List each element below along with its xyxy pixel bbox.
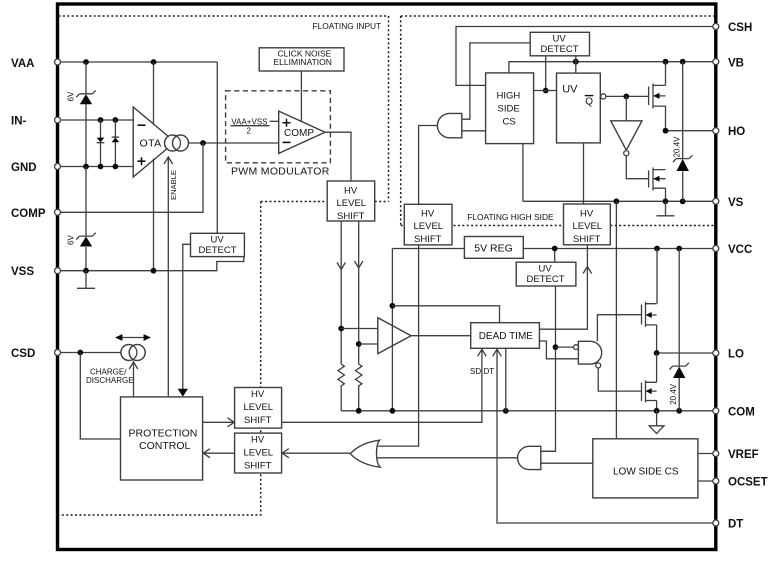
wire zener VCC-COM (678, 249, 680, 411)
wire UV detect top to AND (462, 43, 530, 119)
node VB/UV detect (573, 59, 579, 65)
svg-text:Q: Q (585, 96, 593, 107)
box DEAD TIME (471, 323, 540, 349)
svg-text:UV: UV (553, 34, 567, 45)
svg-text:6V: 6V (67, 91, 76, 101)
svg-text:HV: HV (251, 389, 265, 400)
pin circle VCC (713, 246, 719, 252)
box 5V REG (464, 237, 523, 259)
node ref branch (390, 303, 396, 309)
node HS CS to latch (543, 88, 549, 94)
svg-text:GND: GND (11, 162, 37, 174)
inverter high side (611, 121, 642, 156)
svg-text:CSH: CSH (728, 22, 752, 34)
node COM/M4 (654, 408, 660, 414)
pin circle CSH (713, 24, 719, 30)
svg-text:SHIFT: SHIFT (337, 211, 365, 222)
pin COM (728, 407, 755, 419)
wire inverter to lower gate (626, 156, 648, 179)
node COM/zener (676, 408, 682, 414)
svg-text:SD: SD (470, 367, 481, 376)
svg-text:20.4V: 20.4V (669, 383, 678, 405)
svg-text:HV: HV (421, 208, 435, 219)
svg-text:UV: UV (539, 264, 553, 275)
svg-text:PWM MODULATOR: PWM MODULATOR (231, 165, 330, 177)
svg-text:UV: UV (562, 84, 578, 96)
pin VS (728, 197, 744, 209)
floating high side dashed boundary (401, 16, 714, 226)
svg-text:SHIFT: SHIFT (573, 234, 601, 245)
svg-text:DETECT: DETECT (541, 44, 579, 55)
zener diode 6V upper (76, 90, 95, 104)
wire ENABLE (167, 158, 169, 397)
wire VS rail (523, 200, 716, 202)
wire HO rail (666, 130, 716, 132)
pin COMP (11, 208, 46, 220)
zener diode 6V lower (76, 233, 95, 247)
arrow into protection control (178, 389, 188, 397)
wire M1 source to HO (665, 106, 667, 131)
pin circle COMP (55, 209, 61, 215)
transistor M1 high side upper (649, 84, 666, 109)
arrow into HV shift right chevron (228, 418, 235, 427)
current source OTA output (165, 135, 189, 151)
node VCC/M3 (654, 246, 660, 252)
zener diode 20.4V high side (673, 155, 692, 171)
pin circle VAA (55, 59, 61, 65)
box HV LEVEL SHIFT left floating (404, 204, 452, 245)
wire HV left box output to OR input (378, 245, 419, 446)
pin DT (728, 518, 743, 530)
wire M3 source to LO (656, 325, 658, 353)
wire clamp diode line 2 (114, 120, 116, 167)
wire charge/discharge to protection control (133, 361, 135, 397)
arrow substrate below COM (649, 411, 664, 434)
transistor M2 high side lower (649, 168, 666, 191)
wire comparator input 2 (359, 343, 378, 345)
svg-text:UV: UV (211, 235, 225, 246)
wire UV detect to CS node (545, 56, 547, 91)
svg-text:CSD: CSD (11, 348, 35, 360)
pin OCSET (728, 476, 768, 488)
wire VAA rail (58, 61, 218, 63)
wire dead time out to HV level shift right (539, 245, 587, 329)
wire clamp diode line 1 (100, 120, 102, 167)
pin LO (728, 348, 744, 360)
pin circle COM (713, 408, 719, 414)
arrow chevron up to level shift (583, 267, 592, 274)
box HV LEVEL SHIFT right floating (564, 204, 611, 245)
wire VREF (698, 453, 716, 455)
wire AND input from low side CS (541, 462, 593, 464)
zener diode 20.4V low side (670, 363, 689, 378)
svg-text:LO: LO (728, 348, 744, 360)
wire COMP pin feedback (58, 143, 204, 212)
wire VCC rail (392, 248, 715, 250)
wire OTA output to COMP (189, 142, 279, 144)
wire OR output to HV shift (282, 452, 351, 454)
wire 5V reference drop (391, 249, 393, 411)
resistor pulldown 1 (338, 364, 344, 411)
wire to inverter (625, 96, 627, 120)
pin VB (728, 57, 744, 69)
svg-text:DETECT: DETECT (199, 245, 237, 256)
wire AND input from UV line (541, 450, 556, 452)
wire HS CS bottom to VS (522, 144, 524, 202)
node VSS/OTA supply (151, 268, 157, 274)
svg-text:FLOATING HIGH SIDE: FLOATING HIGH SIDE (467, 212, 554, 222)
wire dead time out to NAND (539, 341, 578, 359)
wire vref to comparator plus (270, 120, 279, 122)
floating input dashed boundary (59, 16, 389, 515)
svg-text:5V REG: 5V REG (474, 243, 513, 255)
svg-text:OCSET: OCSET (728, 476, 768, 488)
wire CSD to protection control (80, 353, 120, 440)
wire protection control to HV shift (203, 421, 235, 423)
arrow enable up chevron (164, 157, 173, 164)
svg-text:SHIFT: SHIFT (244, 460, 272, 471)
svg-text:HV: HV (344, 185, 358, 196)
node LO (654, 350, 660, 356)
svg-text:CHARGE/: CHARGE/ (90, 367, 127, 376)
svg-text:SHIFT: SHIFT (414, 234, 442, 245)
pin circle IN- (55, 117, 61, 123)
node VB/zener (680, 59, 686, 65)
node VCC/zener (676, 246, 682, 252)
pin circle DT (713, 520, 719, 526)
arrow down chevron 2 (355, 261, 363, 268)
svg-text:CS: CS (503, 116, 516, 127)
wire UV detect low output (541, 286, 556, 451)
svg-text:VREF: VREF (728, 449, 759, 461)
pin GND (11, 162, 37, 174)
svg-text:DETECT: DETECT (527, 274, 565, 285)
ground VS floating (657, 201, 675, 216)
box UV DETECT high side (530, 32, 589, 56)
svg-text:LEVEL: LEVEL (244, 402, 274, 413)
pin HO (728, 126, 745, 138)
node VS/low side link (614, 198, 620, 204)
svg-text:VS: VS (728, 197, 744, 209)
logic gate AND high side (437, 113, 461, 137)
wire level shift output 1 (340, 221, 342, 364)
node VS/zener (680, 198, 686, 204)
wire comparator output to HV level shift (325, 132, 351, 181)
pin CSH (728, 22, 752, 34)
wire UV detect to latch (575, 56, 577, 73)
svg-text:LEVEL: LEVEL (244, 447, 274, 458)
wire CSD rail (58, 352, 121, 354)
wire LO to M4 drain (656, 353, 658, 382)
node COM/ref (390, 408, 396, 414)
pin circle CSD (55, 350, 61, 356)
svg-text:HO: HO (728, 126, 745, 138)
pin circle HO (713, 128, 719, 134)
box UV DETECT left (191, 233, 245, 256)
op-amp OTA (133, 107, 175, 177)
svg-text:DEAD TIME: DEAD TIME (479, 331, 534, 342)
wire latch to HV shift right (583, 143, 585, 204)
wire HS CS to AND input (462, 130, 486, 132)
box UV DETECT low (516, 262, 576, 286)
svg-text:PROTECTION: PROTECTION (129, 427, 198, 439)
arrow DT chevron up (493, 349, 502, 356)
pin VCC (728, 244, 752, 256)
svg-text:DT: DT (484, 367, 495, 376)
svg-text:IN-: IN- (11, 115, 27, 127)
svg-text:LEVEL: LEVEL (414, 221, 444, 232)
node GND/diode2 (113, 164, 119, 170)
wire NAND top feed to upper gate (597, 315, 641, 342)
wire CSH rail (456, 27, 716, 86)
svg-text:COM: COM (728, 407, 755, 419)
svg-text:VCC: VCC (728, 244, 752, 256)
wire VAA to UV detect (216, 62, 218, 233)
node VAA/zener (83, 59, 89, 65)
wire ref to dead time top (392, 306, 499, 323)
latch UV with Q-bar (557, 73, 606, 143)
wire VCC to UV detect low (554, 249, 556, 263)
node VAA/OTA supply (151, 59, 157, 65)
svg-text:VAA+VSS: VAA+VSS (231, 117, 267, 126)
node GND/zener (83, 164, 89, 170)
wire buffer output to dead time (411, 335, 471, 337)
ground VSS (77, 271, 95, 289)
svg-text:LOW SIDE CS: LOW SIDE CS (613, 466, 679, 477)
PWM modulator dashed box (226, 91, 331, 163)
pin VAA (11, 58, 34, 70)
wire GND rail (58, 166, 134, 168)
svg-text:DISCHARGE: DISCHARGE (86, 376, 134, 385)
pin circle VREF (713, 451, 719, 457)
node VS/MOSFET (663, 198, 669, 204)
wire LO rail (657, 352, 716, 354)
arrow bidirectional charge/discharge (115, 334, 151, 341)
svg-text:VAA: VAA (11, 58, 34, 70)
svg-text:HV: HV (251, 434, 265, 445)
node comparator input 2 (356, 341, 362, 347)
logic gate OR fault (350, 440, 380, 467)
arrow down chevron 1 (337, 263, 345, 270)
pin VREF (728, 449, 759, 461)
svg-text:2: 2 (247, 127, 252, 136)
current source charge/discharge (121, 345, 145, 361)
svg-text:20.4V: 20.4V (673, 136, 682, 158)
box HV LEVEL SHIFT protection lower (235, 433, 282, 473)
wire VCC to M3 drain (656, 249, 658, 304)
wire VB rail (509, 62, 716, 73)
pin VSS (11, 266, 34, 278)
pin circle VS (713, 198, 719, 204)
wire comparator input 1 (341, 328, 378, 330)
wire IN- rail (58, 119, 134, 121)
wire HS CS to latch (534, 90, 557, 92)
box LOW SIDE CS (593, 439, 698, 498)
arrow into HV shift left chevron (282, 449, 289, 458)
svg-text:ENABLE: ENABLE (169, 170, 178, 200)
svg-text:CONTROL: CONTROL (139, 440, 190, 452)
pin circle GND (55, 164, 61, 170)
pin circle VSS (55, 268, 61, 274)
comparator PWM buffer (378, 318, 411, 354)
wire M2 to VS (665, 188, 667, 201)
svg-text:LEVEL: LEVEL (573, 221, 603, 232)
node NAND input branch (553, 344, 559, 350)
transistor M3 low side upper (642, 302, 657, 327)
node COM/deadtime (503, 408, 509, 414)
node CSD (77, 350, 83, 356)
node HO (663, 128, 669, 134)
diode clamp up (112, 137, 120, 142)
wire to NAND bubble input (556, 346, 574, 348)
wire zener VAA-GND (85, 62, 87, 167)
svg-text:FLOATING INPUT: FLOATING INPUT (313, 21, 382, 31)
arrow charge chevron up (129, 362, 138, 369)
pin circle OCSET (713, 478, 719, 484)
wire HV shift to protection control (203, 452, 235, 454)
svg-text:LEVEL: LEVEL (337, 198, 367, 209)
node VCC/UV tap (552, 246, 558, 252)
wire OCSET (698, 480, 716, 482)
box HIGH SIDE CS (486, 73, 534, 144)
node latch output branch (623, 94, 629, 100)
logic gate AND low fault (518, 446, 541, 469)
box CLICK NOISE ELLIMINATION (259, 48, 344, 71)
pin CSD (11, 348, 35, 360)
wire COM rail (341, 410, 716, 412)
svg-text:6V: 6V (67, 235, 76, 245)
node comparator input 1 (338, 326, 344, 332)
wire M4 source to COM (656, 401, 658, 411)
wire UV detect to protection control (183, 244, 191, 389)
node COM/resistor2 (356, 408, 362, 414)
wire OTA VSS supply (153, 159, 155, 271)
wire VSS rail (58, 257, 244, 271)
resistor pulldown 2 (356, 364, 362, 411)
wire latch output to gate (606, 95, 649, 97)
svg-text:SHIFT: SHIFT (244, 415, 272, 426)
node IN-/diode1 (98, 117, 104, 123)
node IN-/diode2 (113, 117, 119, 123)
svg-text:VSS: VSS (11, 266, 34, 278)
wire level shift output 2 (358, 221, 360, 364)
wire dead time to COM (505, 348, 507, 411)
box HV LEVEL SHIFT protection upper (235, 388, 282, 429)
box HV LEVEL SHIFT center (327, 181, 375, 222)
pin circle LO (713, 350, 719, 356)
svg-text:COMP: COMP (284, 128, 314, 139)
pin IN- (11, 115, 27, 127)
arrow SD chevron up (478, 349, 487, 356)
wire SD input (282, 348, 482, 422)
svg-text:VB: VB (728, 57, 744, 69)
svg-text:DT: DT (728, 518, 743, 530)
node VB/MOSFET (663, 59, 669, 65)
transistor M4 low side lower (642, 380, 657, 402)
node OTA output (200, 140, 206, 146)
svg-text:COMP: COMP (11, 208, 46, 220)
logic gate NAND low side (574, 341, 602, 368)
svg-text:ELLIMINATION: ELLIMINATION (274, 57, 332, 67)
comparator COMP (279, 111, 325, 153)
label CHARGE/DISCHARGE (86, 367, 134, 385)
node GND/diode1 (98, 164, 104, 170)
node VSS/zener (83, 268, 89, 274)
pin circle VB (713, 59, 719, 65)
svg-text:HIGH: HIGH (497, 90, 521, 101)
wire VB to M1 drain (665, 62, 667, 86)
svg-text:OTA: OTA (140, 138, 162, 150)
wire VS to low side CS (615, 201, 617, 438)
wire click noise to comparator (300, 71, 302, 122)
wire OTA VAA supply (153, 62, 155, 124)
svg-text:HV: HV (580, 208, 594, 219)
arrow into protection control left chevron (203, 449, 210, 458)
wire zener VB-VS (682, 62, 684, 202)
wire zener GND-VSS (85, 167, 87, 271)
wire DT input (497, 348, 716, 523)
svg-text:SIDE: SIDE (498, 103, 520, 114)
label VAA+VSS/2 (231, 117, 270, 135)
wire AND output to OR input (377, 457, 517, 459)
diode clamp down (97, 138, 105, 143)
box PROTECTION CONTROL (121, 397, 203, 480)
wire NAND output to lower gate (598, 368, 641, 391)
wire AND output to HV shift left (419, 126, 438, 205)
